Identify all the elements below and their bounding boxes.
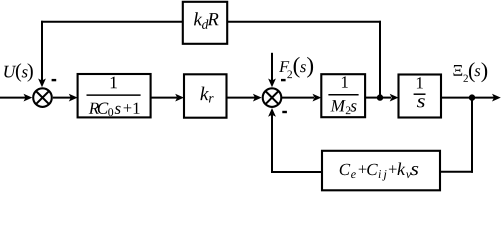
wire: block G4 to junction node B and output arrow xyxy=(441,94,501,102)
wire: bottom feedback up into summer S2 xyxy=(268,108,276,173)
wire: block kr to summer S2 xyxy=(227,94,262,102)
wire: node A up to top feedback line xyxy=(379,21,381,98)
wire: bottom feedback right segment (node B corner to block G6) xyxy=(441,171,473,173)
wire: node B down to bottom feedback line xyxy=(471,98,473,173)
node label U(s) xyxy=(4,63,33,81)
wire: F2(s) input down into summer S2 xyxy=(268,53,276,87)
wire: block G1 to block kr xyxy=(151,94,184,102)
wire: input from U(s) into summer S1 xyxy=(0,94,32,102)
block G1: 1/(RC0s+1) xyxy=(78,74,151,117)
wire: block G3 to junction node A xyxy=(365,97,380,99)
wire: top feedback right segment (node A corner to block kdR) xyxy=(228,21,381,23)
wire: node A to block 1/s xyxy=(380,94,399,102)
node label F2(s) xyxy=(279,57,313,78)
block G4: 1/s xyxy=(399,75,442,118)
junction node A (dot) xyxy=(377,94,383,100)
block G6: Ce + Cij + kv s xyxy=(322,151,440,191)
block G2: kr xyxy=(184,74,227,117)
node label Xi2(s) xyxy=(453,62,487,82)
wire: top feedback left segment (block kdR to corner above S1) xyxy=(41,21,183,23)
minus sign at S1 top input xyxy=(52,79,57,81)
minus sign at S2 bottom input xyxy=(282,111,287,113)
block G5: kd R xyxy=(183,2,227,44)
minus sign at S2 top input xyxy=(281,79,286,81)
wire: S1 to block 1/(RC0s+1) xyxy=(53,94,78,102)
summer S2 (circle with X) xyxy=(263,88,282,107)
summer S1 (circle with X) xyxy=(33,88,52,107)
junction node B (dot) xyxy=(469,94,475,100)
wire: S2 to block 1/(M2 s) xyxy=(282,94,321,102)
wire: bottom feedback left segment (block G6 to corner below S2) xyxy=(271,171,322,173)
block G3: 1/(M2 s) xyxy=(321,74,365,117)
wire: top feedback down into summer S1 xyxy=(38,21,46,87)
